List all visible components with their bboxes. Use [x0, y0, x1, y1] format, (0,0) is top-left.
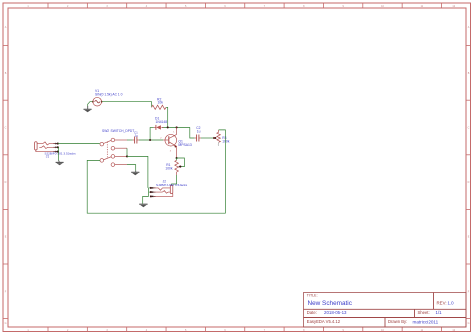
svg-text:New Schematic: New Schematic: [308, 300, 353, 307]
pin 1 Q1: [173, 131, 175, 133]
svg-text:1u: 1u: [197, 129, 201, 133]
ground at V1: [84, 106, 92, 112]
svg-text:C: C: [5, 127, 7, 130]
value MPSA13: [178, 143, 191, 147]
node J1 pin1: [57, 143, 59, 145]
svg-text:1N4148: 1N4148: [156, 120, 168, 124]
wire C1 to Q1 base: [139, 139, 163, 141]
wire T1 to C1: [127, 139, 133, 141]
node J2 pin1: [150, 187, 152, 189]
ground at J2: [139, 204, 147, 207]
wire T2 down to T3 wire: [126, 148, 128, 156]
capacitor C1: [133, 137, 139, 144]
voltage source V1: [92, 97, 103, 106]
diode D1: [154, 125, 164, 130]
svg-text:SJ2B/PJ-301 3.5Jacks: SJ2B/PJ-301 3.5Jacks: [45, 152, 77, 156]
value 10k: [158, 101, 164, 105]
label R3: [222, 136, 226, 140]
label R2: [157, 97, 161, 101]
label C2: [196, 126, 200, 130]
wire R1 wiper loop: [177, 158, 185, 167]
value 1N4148: [156, 120, 168, 124]
value 100k: [165, 167, 173, 171]
potentiometer R1: [175, 158, 181, 175]
svg-text:EasyEDA V5.4.12: EasyEDA V5.4.12: [307, 319, 341, 324]
svg-text:100k: 100k: [165, 167, 173, 171]
node T2-T3 junction: [126, 155, 128, 157]
label C1: [134, 130, 138, 134]
svg-text:SJ2B/PJ-392 3.5Jacks: SJ2B/PJ-392 3.5Jacks: [156, 183, 188, 187]
resistor R2: [152, 105, 166, 109]
svg-text:100k: 100k: [222, 140, 230, 144]
wire R2 to diode row: [166, 107, 168, 127]
svg-text:SW2: SW2: [102, 129, 109, 133]
label J1: [46, 154, 50, 158]
node J1 pin3: [57, 151, 59, 153]
svg-text:1u: 1u: [135, 133, 139, 137]
ground at J1: [56, 160, 64, 165]
svg-text:C: C: [468, 127, 470, 130]
title block Date row: [307, 310, 442, 315]
svg-text:G: G: [468, 322, 470, 325]
svg-text:D: D: [468, 181, 470, 184]
ground at SW2 T4: [131, 171, 139, 176]
svg-text:2018-05-13: 2018-05-13: [324, 310, 347, 315]
connector J1 audio jack: [35, 142, 58, 153]
wire D1 anode to base node: [149, 128, 151, 140]
svg-text:G: G: [5, 322, 7, 325]
pin 3 Q1: [170, 151, 172, 153]
svg-text:Drawn By:: Drawn By:: [388, 319, 407, 324]
node J2 pin2: [150, 191, 152, 193]
value SJ2B/PJ-301 3.5Jacks: [45, 152, 77, 156]
connector J2 audio jack: [151, 185, 173, 197]
wire J2 pins tie: [149, 188, 152, 197]
label Q1: [178, 140, 183, 144]
pin 2 Q1: [160, 138, 162, 140]
value 1u: [197, 129, 201, 133]
svg-text:MPSA13: MPSA13: [178, 143, 191, 147]
value 100k: [222, 140, 230, 144]
svg-text:SWITCH_DPDT: SWITCH_DPDT: [111, 129, 135, 133]
svg-text:SIN(0 1.5k) AC 1 0: SIN(0 1.5k) AC 1 0: [95, 93, 123, 97]
wire C2 to R3 wiper: [201, 137, 215, 139]
potentiometer R3: [213, 130, 220, 146]
node R1 wiper junction: [179, 166, 181, 168]
node J1 pin2: [57, 146, 59, 148]
wire J2 to ground: [143, 196, 149, 203]
wire R1 to J2: [172, 175, 177, 185]
wire V1 to R2: [102, 102, 152, 108]
title block version row: [307, 319, 439, 324]
node emitter junction: [176, 157, 178, 159]
wire T4 to ground: [127, 165, 136, 171]
svg-text:TITLE:: TITLE:: [307, 294, 318, 298]
wire J1 to SW2 pole1: [58, 143, 100, 145]
node collector junction: [176, 126, 178, 128]
node R3 wiper junction: [214, 137, 216, 139]
svg-text:matricci2011: matricci2011: [413, 319, 439, 324]
capacitor C2: [194, 135, 201, 142]
label SW2: [102, 129, 109, 133]
label V1: [95, 89, 99, 93]
wire R3 top to feedback loop: [87, 130, 225, 213]
svg-text:1.0: 1.0: [448, 301, 455, 306]
value 1u: [135, 133, 139, 137]
svg-text:Date:: Date:: [307, 310, 317, 315]
title block TITLE row: [307, 294, 454, 308]
node J2 pin3: [150, 195, 152, 197]
svg-text:10k: 10k: [158, 101, 164, 105]
wire diode row: [150, 127, 195, 138]
svg-text:1/1: 1/1: [436, 310, 443, 315]
switch SW2 DPDT: [100, 138, 127, 166]
label J2: [163, 179, 167, 183]
value SIN(0 1.5k) AC 1 0: [95, 93, 123, 97]
wire J1 sleeve to ground: [57, 147, 60, 160]
label D1: [155, 116, 159, 120]
svg-text:Sheet:: Sheet:: [418, 310, 430, 315]
svg-text:REV:: REV:: [437, 301, 447, 306]
svg-text:D: D: [5, 181, 7, 184]
title block frame: [304, 293, 467, 328]
value SJ2B/PJ-392 3.5Jacks: [156, 183, 188, 187]
node base junction: [149, 139, 151, 141]
transistor Q1 MPSA13: [163, 127, 177, 158]
value SWITCH_DPDT: [111, 129, 135, 133]
node R2-D1 junction: [167, 126, 169, 128]
label R1: [166, 163, 170, 167]
wire T3 to J2: [127, 156, 148, 188]
wire V1 left to ground: [88, 102, 93, 107]
